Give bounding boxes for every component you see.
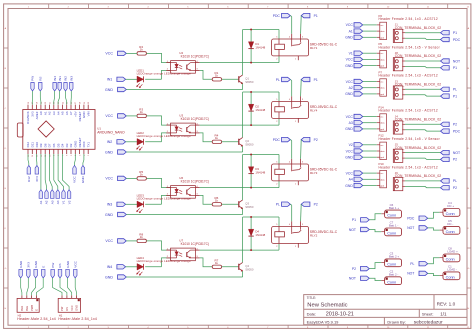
svg-text:1/1: 1/1 — [440, 312, 447, 317]
svg-text:P2: P2 — [453, 186, 457, 190]
svg-text:IN2: IN2 — [64, 76, 68, 81]
svg-text:VCC: VCC — [73, 260, 77, 267]
svg-text:1N4148: 1N4148 — [255, 46, 265, 50]
svg-text:D12: D12 — [27, 176, 31, 182]
svg-text:RLY2: RLY2 — [310, 233, 318, 237]
svg-text:V1: V1 — [349, 52, 353, 56]
svg-text:A3: A3 — [349, 121, 353, 125]
svg-text:Header Female 2.54, 1x3 - ACS7: Header Female 2.54, 1x3 - ACS712 — [379, 17, 438, 21]
svg-text:Header Female 2.54, 1x3 - ACS7: Header Female 2.54, 1x3 - ACS712 — [379, 109, 438, 113]
svg-text:IN1: IN1 — [107, 78, 113, 82]
svg-text:Conn: Conn — [446, 230, 455, 234]
svg-text:DC +: DC + — [447, 204, 454, 208]
svg-text:E: E — [35, 309, 39, 311]
svg-text:Batt 2 -: Batt 2 - — [389, 273, 398, 277]
svg-text:VCC: VCC — [346, 58, 354, 62]
svg-text:Conn: Conn — [387, 214, 396, 218]
svg-text:RS: RS — [58, 263, 62, 267]
svg-text:LOAD +: LOAD + — [447, 250, 458, 254]
svg-text:G: G — [5, 268, 7, 270]
svg-text:GND: GND — [66, 260, 70, 268]
svg-text:EasyEDA V5.9.19: EasyEDA V5.9.19 — [307, 319, 340, 324]
svg-text:TX1: TX1 — [86, 142, 90, 148]
svg-text:NOT: NOT — [349, 228, 356, 232]
svg-text:VCC: VCC — [105, 52, 113, 56]
svg-text:2018-10-21: 2018-10-21 — [326, 312, 354, 318]
svg-text:29: 29 — [84, 102, 86, 104]
svg-text:GND: GND — [105, 275, 113, 279]
svg-text:1: 1 — [88, 155, 90, 156]
svg-text:P2: P2 — [352, 267, 356, 271]
svg-text:GND: GND — [81, 176, 85, 184]
svg-text:P2: P2 — [314, 138, 318, 142]
svg-text:P1: P1 — [314, 14, 318, 18]
svg-text:S8050: S8050 — [245, 267, 254, 271]
svg-text:TITLE:: TITLE: — [307, 296, 317, 300]
svg-text:LEDOrange orange LEDOrange ora: LEDOrange orange LEDOrange orange — [137, 72, 192, 76]
svg-text:Conn: Conn — [387, 262, 396, 266]
svg-text:vcc: vcc — [380, 82, 383, 84]
svg-text:BLK: BLK — [20, 306, 24, 311]
svg-text:VIN: VIN — [86, 111, 90, 116]
svg-text:Date:: Date: — [307, 312, 317, 317]
svg-text:Batt 2 +: Batt 2 + — [389, 255, 399, 259]
svg-text:S8050: S8050 — [245, 142, 254, 146]
svg-text:Conn: Conn — [446, 258, 455, 262]
svg-text:VCC: VCC — [346, 115, 354, 119]
svg-text:sebcotedazur: sebcotedazur — [414, 319, 443, 325]
svg-text:A2: A2 — [45, 200, 49, 204]
svg-text:Header Female 2.54, 1x3 - ACS7: Header Female 2.54, 1x3 - ACS712 — [379, 165, 438, 169]
svg-text:Batt 1 -: Batt 1 - — [389, 224, 398, 228]
svg-text:VCC: VCC — [346, 149, 354, 153]
svg-text:K1010 1C(PC817C): K1010 1C(PC817C) — [181, 242, 209, 246]
svg-text:30: 30 — [88, 102, 90, 104]
svg-text:1N4148: 1N4148 — [255, 171, 265, 175]
svg-text:VCC: VCC — [73, 176, 77, 183]
svg-text:Header Female 2.54, 1x5 - V Se: Header Female 2.54, 1x5 - V Sensor — [379, 137, 441, 141]
svg-text:NOT: NOT — [453, 151, 460, 155]
svg-text:PW: PW — [31, 76, 35, 81]
svg-text:vcc: vcc — [380, 117, 383, 119]
svg-text:New Schematic: New Schematic — [307, 302, 347, 308]
svg-text:GND: GND — [105, 150, 113, 154]
svg-text:16: 16 — [28, 102, 30, 104]
svg-text:IN4: IN4 — [107, 265, 113, 269]
svg-text:Header Female 2.54, 1x5 - V Se: Header Female 2.54, 1x5 - V Sensor — [379, 45, 441, 49]
svg-text:Drawn By:: Drawn By: — [387, 319, 405, 324]
svg-text:G: G — [468, 268, 470, 270]
svg-text:PWB: PWB — [30, 305, 34, 311]
svg-text:P2: P2 — [314, 203, 318, 207]
svg-text:V2: V2 — [349, 143, 353, 147]
svg-text:Sheet:: Sheet: — [422, 312, 434, 317]
svg-text:LEDOrange orange LEDOrange ora: LEDOrange orange LEDOrange orange — [137, 197, 192, 201]
svg-text:28: 28 — [80, 102, 82, 104]
svg-text:RS: RS — [65, 307, 69, 311]
svg-text:V1: V1 — [62, 200, 66, 204]
svg-text:A1: A1 — [349, 29, 353, 33]
svg-text:S8050: S8050 — [245, 80, 254, 84]
svg-text:PW: PW — [51, 263, 55, 268]
svg-text:Conn: Conn — [446, 275, 455, 279]
svg-text:P1: P1 — [453, 31, 457, 35]
svg-text:PW: PW — [60, 306, 64, 311]
svg-text:VCC: VCC — [346, 171, 354, 175]
svg-text:ARDUINO_NANO: ARDUINO_NANO — [97, 131, 125, 135]
svg-text:PDC: PDC — [453, 38, 461, 42]
svg-text:GND: GND — [345, 184, 353, 188]
svg-text:K1010 1C(PC817C): K1010 1C(PC817C) — [181, 117, 209, 121]
svg-text:VCC: VCC — [105, 114, 113, 118]
svg-text:DC -: DC - — [447, 222, 453, 226]
svg-text:K1010 1C(PC817C): K1010 1C(PC817C) — [181, 179, 209, 183]
svg-text:PL: PL — [276, 78, 280, 82]
svg-text:IN3: IN3 — [70, 76, 74, 81]
svg-text:A1: A1 — [39, 200, 43, 204]
svg-text:GND: GND — [105, 88, 113, 92]
svg-text:REV: 1.0: REV: 1.0 — [437, 301, 456, 306]
svg-text:6: 6 — [67, 155, 69, 156]
svg-text:vcc: vcc — [380, 25, 383, 27]
svg-text:P1: P1 — [314, 78, 318, 82]
svg-text:GND: GND — [19, 260, 23, 268]
svg-text:Conn: Conn — [387, 280, 396, 284]
svg-text:VCC: VCC — [105, 177, 113, 181]
svg-text:GND: GND — [345, 64, 353, 68]
svg-text:P2: P2 — [453, 123, 457, 127]
svg-text:PL: PL — [410, 262, 414, 266]
svg-text:3V3: 3V3 — [35, 176, 39, 182]
svg-text:LOAD -: LOAD - — [447, 268, 457, 272]
svg-text:Conn: Conn — [387, 232, 396, 236]
svg-text:NOT: NOT — [349, 277, 356, 281]
svg-text:Header Female 2.54, 1x3 - ACS7: Header Female 2.54, 1x3 - ACS712 — [379, 74, 438, 78]
svg-text:1N4148: 1N4148 — [255, 233, 265, 237]
svg-text:LEDOrange orange LEDOrange ora: LEDOrange orange LEDOrange orange — [137, 134, 192, 138]
svg-text:3V3: 3V3 — [27, 262, 31, 268]
svg-text:vcc: vcc — [380, 173, 383, 175]
svg-text:Header-Male 2.54_1x4: Header-Male 2.54_1x4 — [58, 317, 97, 321]
svg-text:RS: RS — [39, 76, 43, 80]
svg-text:GND: GND — [75, 305, 79, 311]
svg-text:20: 20 — [45, 102, 47, 104]
svg-text:3: 3 — [80, 155, 82, 156]
svg-text:GND: GND — [345, 156, 353, 160]
svg-text:P1: P1 — [453, 66, 457, 70]
svg-text:GND: GND — [105, 213, 113, 217]
svg-text:P1: P1 — [352, 218, 356, 222]
svg-text:GND: GND — [345, 127, 353, 131]
svg-text:VCC: VCC — [346, 23, 354, 27]
svg-text:S8050: S8050 — [245, 205, 254, 209]
svg-text:5: 5 — [71, 155, 73, 156]
svg-text:A2: A2 — [349, 86, 353, 90]
svg-text:A4: A4 — [56, 200, 60, 204]
svg-text:Conn: Conn — [446, 212, 455, 216]
svg-text:IN2: IN2 — [107, 140, 113, 144]
svg-text:14: 14 — [32, 155, 34, 157]
svg-text:1N4148: 1N4148 — [255, 108, 265, 112]
svg-text:VCC: VCC — [346, 80, 354, 84]
svg-text:RLY1: RLY1 — [310, 46, 318, 50]
svg-text:NOT: NOT — [453, 59, 460, 63]
svg-text:RLY3: RLY3 — [310, 171, 318, 175]
svg-text:PL: PL — [453, 179, 457, 183]
svg-text:PDC: PDC — [273, 14, 281, 18]
svg-text:24: 24 — [62, 102, 64, 104]
svg-text:IN3: IN3 — [107, 203, 113, 207]
svg-text:18: 18 — [37, 102, 39, 104]
svg-text:Header-Male 2.54_1x4: Header-Male 2.54_1x4 — [17, 317, 56, 321]
svg-text:PL: PL — [453, 88, 457, 92]
svg-text:V2: V2 — [67, 200, 71, 204]
svg-text:K1010 1C(PC817C): K1010 1C(PC817C) — [181, 54, 209, 58]
svg-text:vcc: vcc — [380, 53, 383, 55]
svg-text:P1: P1 — [453, 94, 457, 98]
svg-text:GND: GND — [345, 92, 353, 96]
svg-text:PDC: PDC — [273, 138, 281, 142]
svg-text:Batt 1 +: Batt 1 + — [389, 206, 399, 210]
svg-text:NOT: NOT — [407, 226, 414, 230]
svg-text:PDC: PDC — [453, 129, 461, 133]
svg-text:A4: A4 — [349, 178, 353, 182]
svg-text:BLE: BLE — [25, 306, 29, 311]
svg-text:NOT: NOT — [407, 272, 414, 276]
svg-text:E: E — [41, 266, 45, 268]
svg-text:PDC: PDC — [407, 217, 415, 221]
svg-text:PL: PL — [276, 203, 280, 207]
svg-text:GND: GND — [34, 260, 38, 268]
svg-text:27: 27 — [75, 102, 77, 104]
svg-text:VCC: VCC — [105, 239, 113, 243]
svg-text:P2: P2 — [453, 158, 457, 162]
svg-text:IN4: IN4 — [53, 76, 57, 81]
svg-text:21: 21 — [49, 102, 51, 104]
svg-text:RLY4: RLY4 — [310, 108, 318, 112]
svg-text:LEDOrange orange LEDOrange ora: LEDOrange orange LEDOrange orange — [137, 259, 192, 263]
svg-text:vcc: vcc — [380, 145, 383, 147]
svg-text:GND: GND — [345, 36, 353, 40]
svg-text:VCC: VCC — [70, 305, 74, 311]
svg-text:A3: A3 — [50, 200, 54, 204]
svg-text:IN1: IN1 — [58, 76, 62, 81]
